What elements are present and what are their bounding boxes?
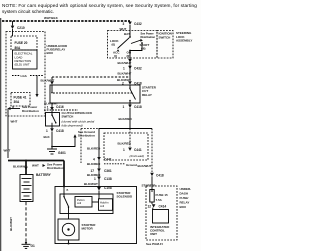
svg-text:C432: C432	[134, 66, 142, 70]
svg-text:BLK/WHT: BLK/WHT	[13, 165, 27, 169]
svg-text:coil: coil	[77, 201, 81, 205]
svg-text:C138: C138	[104, 177, 112, 181]
svg-text:DASH: DASH	[180, 192, 189, 196]
svg-text:RELAY: RELAY	[180, 201, 190, 205]
svg-text:BATTERY: BATTERY	[36, 173, 52, 177]
svg-text:BLK/RED: BLK/RED	[118, 142, 132, 146]
svg-text:RELAY: RELAY	[142, 93, 152, 97]
svg-text:G1: G1	[31, 244, 35, 248]
svg-text:4: 4	[93, 157, 95, 161]
svg-text:C418: C418	[156, 174, 164, 178]
svg-text:C414: C414	[159, 204, 167, 208]
svg-text:Distribution: Distribution	[141, 35, 156, 39]
svg-text:12: 12	[148, 205, 152, 209]
svg-text:30A: 30A	[14, 100, 21, 104]
svg-text:BLK/RED: BLK/RED	[119, 117, 133, 121]
svg-text:C418: C418	[134, 105, 142, 109]
svg-text:WHT: WHT	[11, 120, 18, 124]
svg-text:LGA: LGA	[21, 74, 28, 78]
svg-text:(ELD) UNIT: (ELD) UNIT	[15, 63, 30, 67]
svg-text:FUSE/: FUSE/	[180, 196, 189, 200]
svg-text:3: 3	[123, 22, 125, 26]
svg-text:B: B	[67, 188, 69, 192]
svg-text:1: 1	[123, 66, 125, 70]
svg-text:WHT: WHT	[32, 164, 39, 168]
svg-text:SWITCH: SWITCH	[62, 115, 74, 119]
svg-text:WHT/BLK: WHT/BLK	[44, 16, 59, 20]
svg-text:FUSE 41: FUSE 41	[14, 95, 27, 99]
svg-text:MOTOR: MOTOR	[82, 227, 94, 231]
svg-text:SWITCH: SWITCH	[159, 35, 171, 39]
svg-text:C432: C432	[134, 22, 142, 26]
svg-text:fully depressed): fully depressed)	[62, 123, 83, 127]
svg-text:SOLENOID: SOLENOID	[117, 195, 134, 199]
svg-text:Ground: Ground	[126, 163, 137, 167]
svg-text:BAT: BAT	[124, 32, 130, 36]
svg-text:1: 1	[94, 177, 96, 181]
svg-text:UNDER-: UNDER-	[180, 187, 192, 191]
svg-text:BLK: BLK	[44, 135, 51, 139]
svg-text:BOX: BOX	[47, 51, 54, 55]
svg-text:BLK/RED: BLK/RED	[87, 162, 101, 166]
svg-text:C418: C418	[56, 129, 64, 133]
svg-text:WHT: WHT	[4, 149, 11, 153]
svg-text:BLK/WHT: BLK/WHT	[118, 61, 132, 65]
svg-text:See PGM-FI: See PGM-FI	[146, 242, 163, 246]
svg-text:Distribution: Distribution	[78, 134, 95, 138]
svg-text:BLK/RED: BLK/RED	[87, 147, 101, 151]
svg-text:(2nd Lead): (2nd Lead)	[129, 154, 144, 158]
svg-text:7.5A: 7.5A	[156, 198, 163, 202]
svg-text:C441: C441	[104, 157, 112, 161]
svg-text:FUSE 20: FUSE 20	[15, 41, 28, 45]
svg-text:(I): (I)	[114, 54, 117, 58]
svg-text:coil: coil	[100, 204, 104, 208]
svg-text:G401: G401	[58, 151, 66, 155]
svg-text:FUSE 15: FUSE 15	[156, 193, 169, 197]
svg-text:C441: C441	[134, 148, 142, 152]
svg-text:1: 1	[123, 105, 125, 109]
svg-text:(0): (0)	[112, 43, 116, 47]
svg-text:UNIT: UNIT	[150, 232, 157, 236]
svg-text:BLK/WHT: BLK/WHT	[138, 164, 152, 168]
svg-text:system circuit schematic.: system circuit schematic.	[2, 9, 54, 14]
svg-text:C361: C361	[104, 169, 112, 173]
svg-text:BOX: BOX	[180, 205, 187, 209]
svg-text:ASSEMBLY: ASSEMBLY	[176, 39, 192, 43]
svg-text:Distribution: Distribution	[47, 166, 64, 170]
svg-text:1: 1	[123, 148, 125, 152]
svg-text:80A: 80A	[15, 46, 22, 50]
svg-text:1: 1	[46, 129, 48, 133]
svg-text:NOTE: For cars equipped with o: NOTE: For cars equipped with optional se…	[2, 3, 197, 8]
svg-text:STARTER: STARTER	[142, 184, 157, 188]
svg-text:BLK/WHT: BLK/WHT	[9, 217, 13, 231]
svg-text:C210: C210	[17, 26, 25, 30]
svg-text:Distribution: Distribution	[22, 109, 39, 113]
svg-text:BLK/WHT: BLK/WHT	[84, 182, 98, 186]
svg-text:BLK/WHT: BLK/WHT	[118, 72, 132, 76]
svg-text:1: 1	[47, 105, 49, 109]
svg-text:C416: C416	[56, 105, 64, 109]
